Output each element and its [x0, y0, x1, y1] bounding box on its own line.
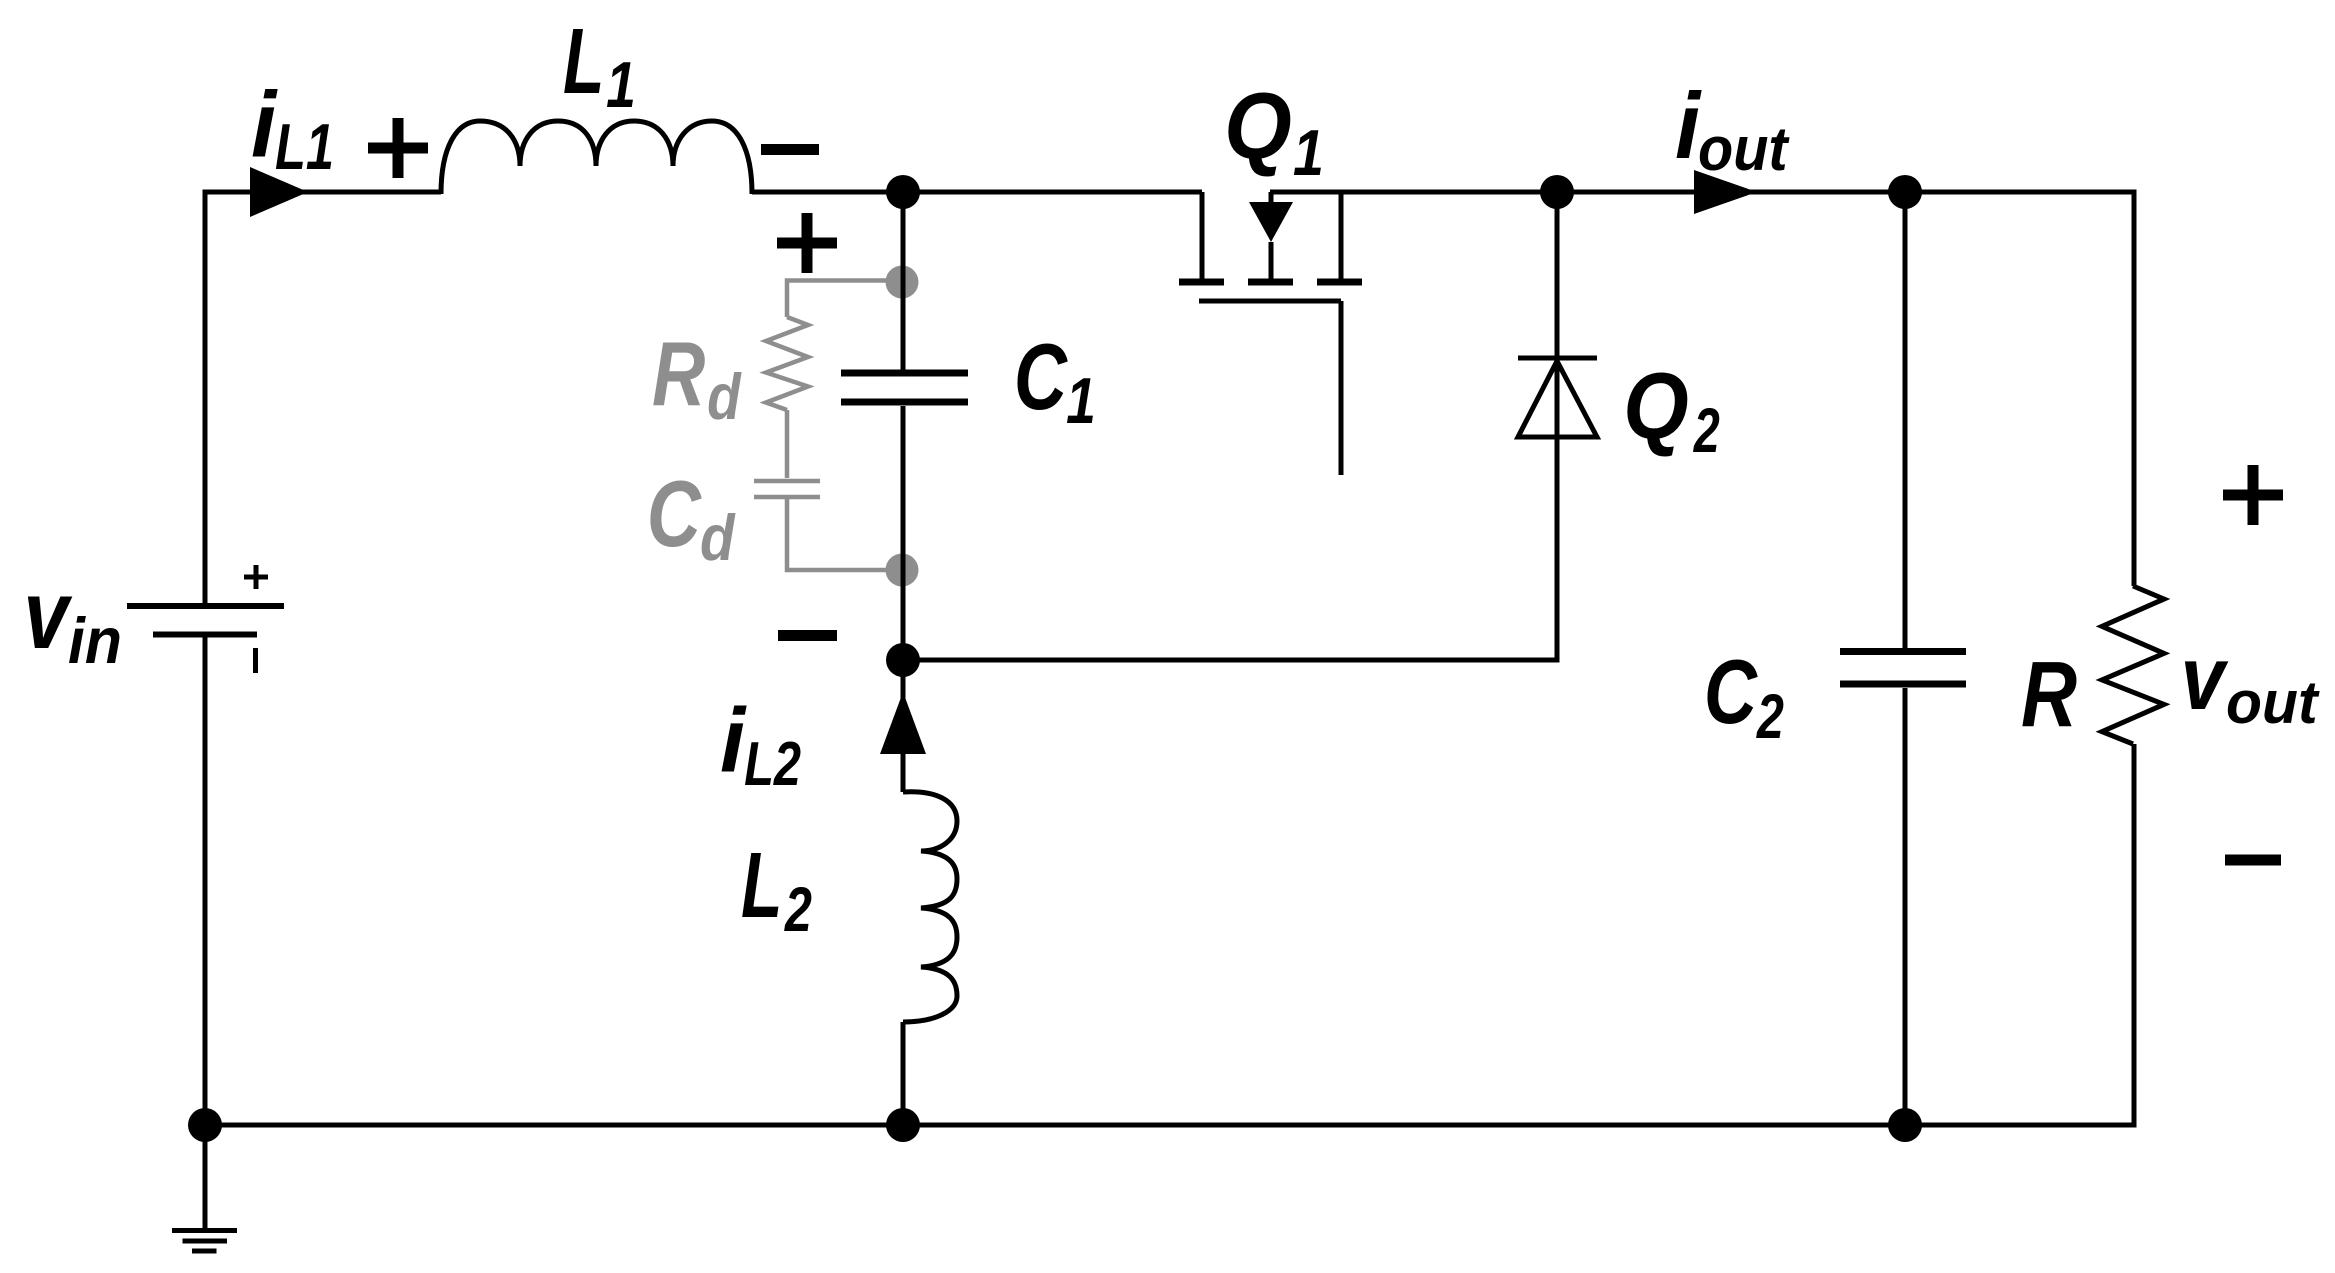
- minus sign right of L1: [761, 144, 819, 155]
- svg-text:R: R: [652, 323, 705, 425]
- svg-text:in: in: [68, 605, 122, 677]
- node C2 top: [1888, 175, 1922, 209]
- node bottom right: [1888, 1108, 1922, 1142]
- label C2: [1704, 640, 1784, 751]
- label iL2: [720, 690, 801, 798]
- svg-text:1: 1: [606, 48, 636, 121]
- plus sign C1 top: [777, 213, 837, 273]
- wire L2 branch upper: [901, 660, 906, 792]
- capacitor Cd: [754, 481, 902, 570]
- diode Q2: [1518, 358, 1597, 437]
- label vout: [2181, 628, 2320, 736]
- svg-text:i: i: [720, 690, 747, 791]
- svg-text:L1: L1: [275, 111, 334, 184]
- node bottom left: [188, 1108, 222, 1142]
- svg-text:d: d: [707, 361, 742, 433]
- wire C2 branch lower: [1903, 688, 1908, 1125]
- capacitor C1: [841, 373, 968, 402]
- wire top rail middle segment: [752, 190, 1202, 195]
- battery Vin: [127, 565, 284, 673]
- plus sign vout: [2223, 465, 2283, 525]
- svg-text:1: 1: [1066, 364, 1096, 437]
- label iL1: [251, 74, 334, 184]
- svg-text:i: i: [251, 74, 278, 177]
- wire top rail right segment: [1270, 192, 2134, 586]
- svg-text:2: 2: [1693, 395, 1720, 466]
- svg-text:R: R: [2021, 644, 2077, 747]
- current arrow iout: [1694, 170, 1757, 214]
- node A top of C1: [886, 175, 920, 209]
- label iout: [1675, 73, 1790, 183]
- label Vin: [24, 561, 122, 677]
- svg-text:2: 2: [784, 874, 812, 945]
- wire top rail left segment: [205, 192, 441, 603]
- svg-text:L2: L2: [744, 729, 801, 798]
- svg-text:L: L: [741, 835, 782, 938]
- svg-text:out: out: [1698, 114, 1790, 183]
- grey node bottom: [886, 554, 919, 587]
- wire C1 branch upper: [901, 192, 906, 370]
- svg-text:C: C: [1014, 324, 1068, 429]
- minus sign C1 bottom: [778, 630, 837, 641]
- svg-text:L: L: [563, 11, 604, 114]
- damping network grey: resistor Rd: [766, 281, 902, 479]
- wire iL2 arrow stem: [901, 754, 906, 792]
- node bottom middle: [886, 1108, 920, 1142]
- svg-text:C: C: [1704, 640, 1758, 742]
- plus sign left of L1: [368, 118, 428, 178]
- svg-text:d: d: [700, 501, 736, 574]
- Q1 body diode triangle: [1249, 202, 1293, 242]
- current arrow iL2: [880, 692, 926, 754]
- svg-text:C: C: [647, 462, 703, 567]
- svg-text:1: 1: [1293, 116, 1324, 189]
- svg-text:v: v: [24, 561, 74, 670]
- capacitor C2: [1840, 652, 1966, 685]
- wire L2 branch lower: [901, 1022, 906, 1125]
- wire C2 branch upper: [1903, 192, 1908, 648]
- node C1 bottom: [886, 643, 920, 677]
- svg-text:Q: Q: [1224, 74, 1292, 179]
- label Q2: [1623, 353, 1720, 466]
- label C1: [1014, 324, 1096, 437]
- svg-text:Q: Q: [1623, 353, 1688, 458]
- minus sign vout: [2225, 855, 2281, 866]
- label Q1: [1224, 74, 1324, 189]
- inductor L2: [903, 792, 957, 1022]
- svg-text:out: out: [2226, 668, 2320, 736]
- wire left rail lower and bottom rail: [205, 637, 2134, 1125]
- svg-text:v: v: [2181, 628, 2230, 729]
- svg-text:2: 2: [1756, 681, 1784, 752]
- grey node top: [886, 266, 919, 299]
- wire node C1bottom to diode and diode branch: [903, 192, 1557, 660]
- label L1: [563, 11, 636, 121]
- label Cd: [647, 462, 736, 574]
- current arrow iL1: [250, 167, 308, 217]
- inductor L1: [441, 121, 752, 194]
- node B drain: [1540, 175, 1574, 209]
- label L2: [741, 835, 812, 945]
- wire C1 branch lower: [901, 406, 906, 660]
- ground: [172, 1125, 237, 1251]
- transistor Q1 (MOSFET): [1199, 192, 1341, 475]
- resistor R: [2102, 586, 2164, 744]
- label Rd: [652, 323, 742, 433]
